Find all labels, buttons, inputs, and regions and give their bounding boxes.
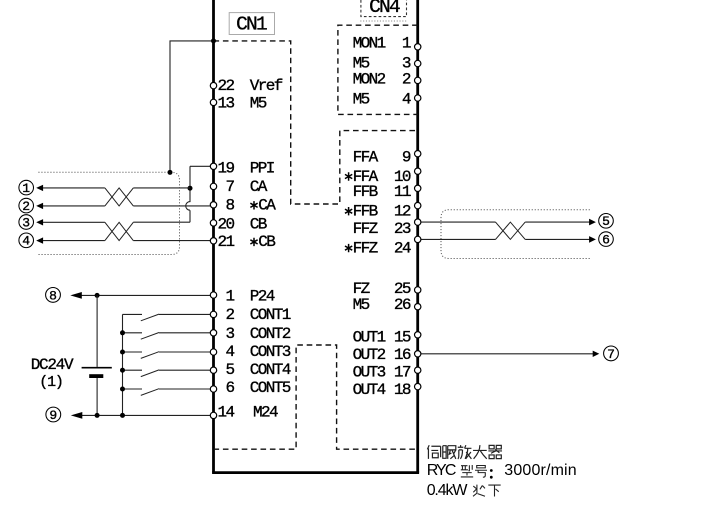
svg-text:DC24V: DC24V [31,356,74,374]
svg-text:4: 4 [22,234,30,249]
svg-text:21: 21 [217,233,234,251]
svg-text:1: 1 [402,34,411,52]
svg-text:22: 22 [217,77,234,95]
svg-text:FFB: FFB [353,183,378,201]
svg-text:0.4kW: 0.4kW [427,482,469,499]
svg-text:1: 1 [225,287,234,305]
svg-text:CB: CB [258,233,275,251]
svg-text:M5: M5 [353,91,370,109]
svg-text:2: 2 [402,71,411,89]
svg-text:14: 14 [217,404,234,422]
svg-text:8: 8 [225,197,234,215]
svg-text:FFA: FFA [353,148,379,166]
svg-text:CN1: CN1 [236,13,267,35]
svg-text:CONT1: CONT1 [250,306,291,324]
svg-text:3: 3 [22,215,30,230]
svg-text:9: 9 [49,408,57,423]
svg-text:8: 8 [49,288,57,303]
svg-text:CA: CA [258,197,276,215]
svg-text:2: 2 [225,306,234,324]
svg-text:4: 4 [225,343,234,361]
svg-text:MON1: MON1 [353,34,386,52]
svg-text:(1): (1) [39,374,62,391]
svg-text:7: 7 [225,178,234,196]
svg-text:20: 20 [217,215,234,233]
svg-text:6: 6 [225,379,234,397]
svg-text:CONT5: CONT5 [250,379,291,397]
svg-text:Vref: Vref [250,77,283,95]
svg-text:CA: CA [250,178,268,196]
svg-text:OUT2: OUT2 [353,346,386,364]
svg-text:7: 7 [607,347,615,362]
svg-text:3: 3 [225,325,234,343]
svg-text:1: 1 [22,181,30,196]
svg-text:4: 4 [402,91,411,109]
svg-text:15: 15 [394,328,411,346]
svg-text:M24: M24 [253,404,278,422]
svg-text:FFZ: FFZ [353,220,379,238]
svg-text:16: 16 [394,346,411,364]
svg-text:MON2: MON2 [353,71,386,89]
svg-text:CB: CB [250,215,267,233]
svg-text:FFB: FFB [353,203,378,221]
svg-text:RYC: RYC [427,462,456,479]
svg-text:19: 19 [217,159,234,177]
svg-text:23: 23 [394,220,411,238]
svg-text:M5: M5 [353,296,370,314]
svg-text:OUT4: OUT4 [353,381,386,399]
svg-text:OUT1: OUT1 [353,328,386,346]
svg-text:3000r/min: 3000r/min [504,462,577,479]
svg-text:CONT3: CONT3 [250,343,291,361]
svg-text:11: 11 [394,183,411,201]
svg-text:CN4: CN4 [369,0,400,18]
svg-text:5: 5 [225,361,234,379]
svg-text:CONT2: CONT2 [250,325,291,343]
svg-text:M5: M5 [250,94,267,112]
svg-text:5: 5 [602,214,610,229]
svg-text:24: 24 [394,239,411,257]
svg-text:P24: P24 [250,287,275,305]
svg-text:12: 12 [394,203,411,221]
svg-text:26: 26 [394,296,411,314]
svg-text:PPI: PPI [250,159,275,177]
svg-text:OUT3: OUT3 [353,364,386,382]
svg-text:FFZ: FFZ [353,239,379,257]
svg-text:CONT4: CONT4 [250,361,291,379]
svg-text:2: 2 [22,199,30,214]
svg-text:6: 6 [602,233,610,248]
svg-text:13: 13 [217,94,234,112]
svg-text:17: 17 [394,364,411,382]
svg-text:9: 9 [402,148,411,166]
svg-text:18: 18 [394,381,411,399]
